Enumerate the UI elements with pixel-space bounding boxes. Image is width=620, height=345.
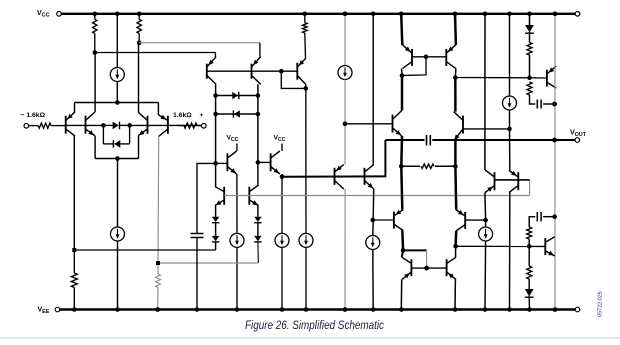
wire VCC to R2load: [138, 14, 140, 19]
node on VEE rail x=306: [304, 307, 309, 312]
wire D9 to R7: [529, 32, 531, 43]
resistor R9: [527, 227, 532, 239]
node on VCC rail x=529.5: [527, 12, 532, 17]
resistor R4: [71, 273, 77, 288]
node on VCC rail x=373.2: [371, 12, 376, 17]
current source I5: [299, 233, 313, 247]
current source I7: [366, 236, 380, 250]
wire I7 to VEE: [372, 250, 374, 310]
wire I5 to VEE: [305, 247, 307, 309]
wire Q9 emitter to I4: [281, 177, 283, 234]
bias line wire (gray): [224, 195, 529, 197]
capacitor C1: [191, 233, 204, 235]
wire Q5 collector trunk: [215, 84, 217, 163]
node restamp VCC x555: [553, 12, 558, 17]
wire Q6 emitter up: [259, 43, 261, 57]
transistor Q11 (NPN clamp right): [248, 187, 250, 205]
current source I3: [230, 233, 244, 247]
node Q25 base line: [527, 244, 532, 249]
node on VEE rail x=345: [343, 307, 348, 312]
node bias chain: [527, 76, 532, 81]
wire Q2 collector up: [94, 53, 96, 113]
node restamp right takeoff: [156, 261, 160, 265]
- input terminal: [24, 124, 29, 129]
wire Q16 base: [373, 219, 394, 221]
wire x509 down to Q24: [509, 129, 511, 171]
node on VCC rail x=509.5: [507, 12, 512, 17]
node bottom mirror base: [424, 266, 429, 271]
resistor R10: [527, 266, 532, 279]
page edge strip: [0, 337, 620, 338]
resistor R8: [527, 82, 532, 95]
wire R1 to Q1 base: [51, 125, 66, 127]
diode D3 (row1): [232, 92, 238, 99]
transistor Q3 (inner right NPN): [147, 116, 149, 134]
transistor Q23 (PNP right pair left): [494, 172, 496, 190]
V_EE rail terminal right: [575, 307, 580, 312]
wire D7-D8: [257, 223, 259, 236]
wire VCC to Q15 emitter (thick): [401, 14, 402, 45]
clamp loop bottom right: [120, 143, 129, 145]
wire Q20col to node: [456, 245, 530, 247]
transistor Q16 (PNP driver left lower): [393, 212, 395, 229]
wire Q8 emitter to I3: [236, 174, 238, 233]
resistor R3: [303, 23, 308, 33]
wire VCC to D9: [529, 14, 531, 25]
+ input terminal: [202, 124, 207, 129]
transistor Q6 (PNP): [251, 64, 253, 79]
capacitor C4 wire left: [529, 217, 535, 227]
wire Q7 emitter up: [304, 33, 307, 59]
wire VCC to I6: [344, 14, 346, 66]
node Q16 base: [371, 218, 376, 223]
node diode right: [127, 123, 132, 128]
wire C4 to node: [543, 216, 555, 218]
wire Q14 emitter down (thick): [400, 136, 403, 166]
V_CC terminal: [57, 12, 62, 17]
diode D2 (clamp left): [114, 140, 120, 148]
node mirror base: [279, 69, 284, 74]
wire VCC to I9 line x509: [509, 14, 511, 96]
current source I1: [110, 68, 124, 82]
wire Q22 emitter to VEE: [454, 279, 456, 309]
transistor Q18 (PNP mirror right): [445, 49, 447, 66]
transistor Q13 (NPN): [364, 168, 366, 185]
wire Rin2 to terminal: [197, 125, 202, 127]
node restamp VOUT: [552, 138, 557, 143]
wire VCC x485 down: [484, 14, 486, 170]
node left load: [93, 50, 98, 55]
wire VCC to R3: [304, 14, 306, 23]
bias line corner up: [529, 180, 531, 196]
transistor Q21 (PNP output top): [546, 70, 548, 87]
base wire to Q14: [345, 123, 393, 125]
wire R8 corner to C3: [530, 95, 536, 104]
node on VEE rail x=529.5: [527, 307, 532, 312]
wire mirror to Q14 collector (thick): [401, 76, 404, 111]
node C3 output rail: [552, 102, 557, 107]
wire Q7 collector: [305, 84, 307, 88]
node on VEE rail x=401.3: [399, 307, 404, 312]
wire Q10 emitter down: [215, 206, 217, 217]
node Q7 collector: [304, 86, 309, 91]
wire I6 down: [344, 80, 346, 124]
capacitor C4: [536, 212, 538, 222]
emitter follower net wire (thick): [282, 140, 385, 177]
node on VEE rail x=509.5: [507, 307, 512, 312]
mirror link wire: [281, 71, 306, 88]
wire bus corner left down: [74, 103, 76, 113]
wire R7 to node: [529, 55, 531, 78]
wire R9 to node: [528, 239, 530, 246]
diode D10: [525, 289, 534, 297]
node restamp mirror base: [424, 266, 429, 271]
node right load: [137, 40, 142, 45]
output line wire (thick): [385, 139, 424, 141]
wire VCC to I1: [116, 14, 118, 68]
node bridge bottom: [115, 156, 120, 161]
mirror link L wire: [404, 57, 426, 76]
node on VCC rail x=304.8: [303, 12, 308, 17]
wire I3 to VEE: [236, 247, 238, 309]
node on VEE rail x=485: [483, 307, 488, 312]
node Q18 collector: [453, 75, 458, 80]
resistor R2 load: [137, 19, 141, 33]
wire Q10 collector up: [215, 163, 217, 186]
wire to I8: [485, 220, 487, 227]
node on VEE rail x=237: [235, 307, 240, 312]
node diode left: [101, 123, 106, 128]
wire Q8 collector to VCC: [236, 144, 238, 152]
wire Q4 collector down: [157, 137, 160, 264]
node right emitter res: [453, 164, 458, 169]
wire Q8 base: [216, 162, 228, 164]
node on VCC rail x=455: [453, 12, 458, 17]
wire Q8 base to C1: [197, 163, 216, 233]
wire Q9 emitter to node: [281, 174, 283, 177]
current source I6: [338, 66, 352, 80]
transistor Q2 (inner left NPN): [85, 116, 87, 134]
wire Q9 base: [258, 161, 271, 163]
node on VEE rail x=555: [553, 307, 558, 312]
wire Q3 collector up: [138, 43, 140, 113]
node on VEE rail x=373.2: [371, 307, 376, 312]
wire Q17 emitter to VEE: [400, 279, 402, 309]
node Q16 collector: [401, 248, 406, 253]
capacitor C3: [536, 100, 538, 109]
svg-text:05722-026: 05722-026: [598, 291, 604, 317]
wire I2 to VEE: [117, 241, 119, 310]
transistor Q9 (NPN follower): [270, 153, 272, 171]
wire R2 to node: [138, 33, 140, 42]
current source I8: [479, 227, 493, 241]
wire I4 to VEE: [281, 247, 283, 309]
V_EE rail wire: [60, 308, 575, 310]
capacitor C2: [426, 135, 428, 146]
bottom mirror link wire horiz: [403, 249, 427, 251]
node on VEE rail x=282: [280, 307, 285, 312]
wire Q9 collector to VCC: [281, 144, 283, 152]
wire bus corner right down: [157, 103, 159, 116]
wire Q16 collector (thick): [401, 231, 404, 251]
bridge top bus wire: [75, 102, 159, 104]
transistor Q17 (mirror bottom left): [410, 259, 412, 276]
bottom mirror base wire: [411, 267, 446, 269]
diode D1 (clamp right): [113, 122, 119, 130]
svg-text:1.6kΩ: 1.6kΩ: [173, 112, 192, 119]
resistor R5: [156, 274, 161, 288]
wire down to Q16 emitter (thick): [401, 166, 402, 209]
node on VCC rail x=94.8: [93, 12, 98, 17]
node on VCC rail x=401.2: [399, 12, 404, 17]
wire Q19 base: [463, 128, 510, 130]
wire bridge to I2: [117, 159, 119, 228]
wire takeoff to R4: [73, 250, 75, 273]
V_CC rail wire: [61, 13, 577, 15]
wire Q6 collector trunk: [257, 84, 259, 162]
clamp loop right wire: [129, 125, 131, 143]
node clamp row2 right: [256, 112, 261, 117]
wire Q19 emitter down (thick): [454, 141, 457, 166]
node Q9 base: [256, 160, 261, 165]
wire I1 to bridge top: [116, 82, 118, 103]
wire down to Q20 emitter (thick): [454, 166, 457, 209]
svg-text:Figure 26. Simplified Schemati: Figure 26. Simplified Schematic: [245, 318, 384, 332]
clamp row2 wire: [216, 113, 258, 115]
wire R10 top: [528, 246, 530, 266]
wire D8 down: [257, 242, 259, 263]
current source I4: [275, 233, 289, 247]
wire Q11 emitter down: [257, 206, 259, 217]
wire R5 to VEE: [157, 288, 159, 310]
node on VCC rail x=139.2: [137, 12, 142, 17]
diode D4 (row2): [234, 110, 240, 117]
node on VCC rail x=345: [343, 12, 348, 17]
node on VEE rail x=74.3: [72, 307, 77, 312]
node restamp VCC x345: [343, 12, 348, 17]
node right takeoff: [156, 261, 160, 265]
node restamp VEE x345: [343, 307, 348, 312]
wire Q7 to I5: [305, 88, 307, 233]
wire base to Rin2: [178, 124, 184, 126]
transistor Q8 (NPN follower): [226, 153, 228, 171]
wire Q18 col to Q19 (thick): [454, 78, 457, 112]
wire -in to R1: [29, 125, 39, 127]
current source I9: [503, 96, 517, 110]
resistor Rin1 1.6k: [38, 123, 51, 128]
transistor Q12 (PNP): [334, 168, 336, 185]
transistor Q10 (NPN clamp left): [223, 187, 225, 205]
node Q23 emitter: [483, 218, 488, 223]
node clamp row1 left: [213, 93, 218, 98]
wire Q2 emitter down: [94, 136, 96, 159]
wire corner to Q5 emitter: [214, 53, 216, 58]
V_OUT terminal: [575, 138, 580, 143]
base wire Q3-Q4: [130, 124, 205, 126]
node Q19 base: [507, 127, 512, 132]
left takeoff return wire: [74, 249, 215, 251]
emitter resistor R6 wire left: [401, 165, 420, 167]
wire D6 down: [215, 242, 217, 250]
node on VEE rail x=157.7: [155, 307, 160, 312]
wire Q3 emitter down: [138, 136, 140, 159]
node output vertical: [552, 138, 557, 143]
transistor Q24 (PNP right pair right): [517, 172, 519, 190]
bottom mirror link wire vert: [426, 250, 428, 268]
clamp loop bottom left: [103, 143, 113, 145]
wire I8 to VEE: [484, 241, 487, 310]
V_CC rail terminal right: [575, 12, 580, 17]
node on VCC rail x=485: [483, 12, 488, 17]
wire R10 to D10: [528, 279, 530, 289]
wire C1 to VEE: [196, 238, 198, 310]
wire Q22 collector up: [455, 246, 457, 257]
diode D7: [254, 217, 261, 222]
wire Q13 emitter segment: [372, 189, 375, 220]
node restamp C3: [552, 102, 557, 107]
wire to D1: [103, 124, 112, 126]
diode D5: [212, 217, 219, 222]
wire node to I7: [372, 220, 374, 236]
diode D8: [254, 236, 261, 241]
transistor Q4 (outer right PNP): [167, 116, 169, 134]
wire VCC to R1load: [94, 14, 96, 19]
node on VEE rail x=197: [195, 307, 200, 312]
wire R1 to node: [94, 33, 96, 52]
left load takeoff wire: [95, 52, 216, 54]
node on VEE rail x=117.5: [115, 307, 120, 312]
right load takeoff wire: [139, 42, 260, 44]
clamp row1 wire: [216, 95, 258, 97]
svg-text:+: +: [200, 112, 204, 119]
wire Q16col to Q17 (thick): [402, 250, 403, 257]
transistor Q20 (PNP driver right lower): [464, 212, 466, 229]
resistor R6: [421, 164, 434, 168]
transistor Q1 (outer left PNP): [65, 116, 67, 134]
transistor Q25 (NPN output bottom): [544, 238, 546, 255]
svg-text:− 1.6kΩ: − 1.6kΩ: [21, 112, 46, 119]
wire node to Q25 base: [529, 245, 545, 247]
diode D9: [525, 25, 534, 33]
wire R4 to VEE: [73, 288, 75, 310]
clamp loop left wire: [102, 125, 104, 143]
node on VCC rail x=117.3: [115, 12, 120, 17]
transistor Q22 (mirror bottom right): [446, 259, 448, 276]
right takeoff return wire: [158, 262, 258, 264]
transistor Q14 (NPN driver left): [392, 115, 394, 133]
wire node to Q21 base: [530, 77, 547, 79]
node left takeoff: [72, 248, 76, 252]
wire I9 down: [509, 110, 511, 129]
diode D6: [212, 236, 219, 241]
wire D10 to VEE: [528, 296, 530, 310]
node restamp base x345: [343, 122, 348, 127]
node on VEE rail x=455: [453, 307, 458, 312]
wire Q15 collector: [401, 68, 403, 75]
node clamp row2 left: [213, 112, 218, 117]
wire Q11 collector up: [257, 162, 259, 185]
output line wire right (thick): [432, 139, 577, 141]
base wire Q5-Q6-Q7: [207, 70, 297, 72]
resistor R7: [527, 43, 532, 56]
node clamp row1 right: [256, 93, 261, 98]
resistor R1 load: [93, 19, 97, 33]
node Q15 collector: [400, 73, 405, 78]
wire node to Q18col: [455, 77, 529, 79]
pair base wire (thick): [495, 179, 530, 181]
wire Q12 collector down (gray): [344, 189, 346, 310]
node Q8 base: [213, 161, 218, 166]
wire D5-D6: [215, 223, 217, 236]
wire Q23 emitter down: [484, 193, 487, 221]
long bias wire x=373: [372, 14, 374, 165]
resistor Rin2 1.6k: [184, 123, 197, 128]
node mirror base link: [424, 55, 429, 60]
node C4 output rail: [552, 214, 557, 219]
bridge bottom bus wire: [95, 158, 138, 160]
wire Q24 collector down: [509, 193, 511, 310]
node Q9 emitter: [280, 175, 285, 180]
wire Q1 collector down: [73, 136, 75, 250]
transistor Q15 (PNP mirror left): [411, 49, 413, 66]
V_EE terminal: [55, 307, 60, 312]
output rail vertical wire: [554, 14, 556, 310]
node left emitter res: [399, 164, 404, 169]
node Q20 collector: [453, 244, 458, 249]
wire C3 to node: [543, 103, 555, 105]
node restamp VEE x555: [553, 307, 558, 312]
transistor Q19 (NPN driver right): [462, 116, 464, 134]
node bridge top: [115, 100, 120, 105]
wire I6 line down (gray): [344, 124, 346, 165]
wire D1 to node: [120, 124, 130, 126]
base wire Q1-Q2: [66, 124, 104, 126]
node restamp VEE x157: [155, 307, 160, 312]
node Q14 base line: [343, 122, 348, 127]
wire Q20 base: [465, 219, 485, 221]
wire takeoff to R5: [157, 263, 159, 274]
wire VCC to Q18 emitter (thick): [454, 14, 457, 45]
wire Q20 collector (thick): [454, 231, 457, 246]
mirror base wire: [412, 56, 446, 58]
transistor Q5 (PNP): [206, 64, 208, 79]
emitter resistor R6 wire right: [435, 165, 455, 167]
wire Q18 collector: [454, 68, 457, 77]
node on VCC rail x=555: [553, 12, 558, 17]
transistor Q7 (PNP diode-connected): [296, 63, 298, 80]
current source I2: [111, 227, 125, 241]
